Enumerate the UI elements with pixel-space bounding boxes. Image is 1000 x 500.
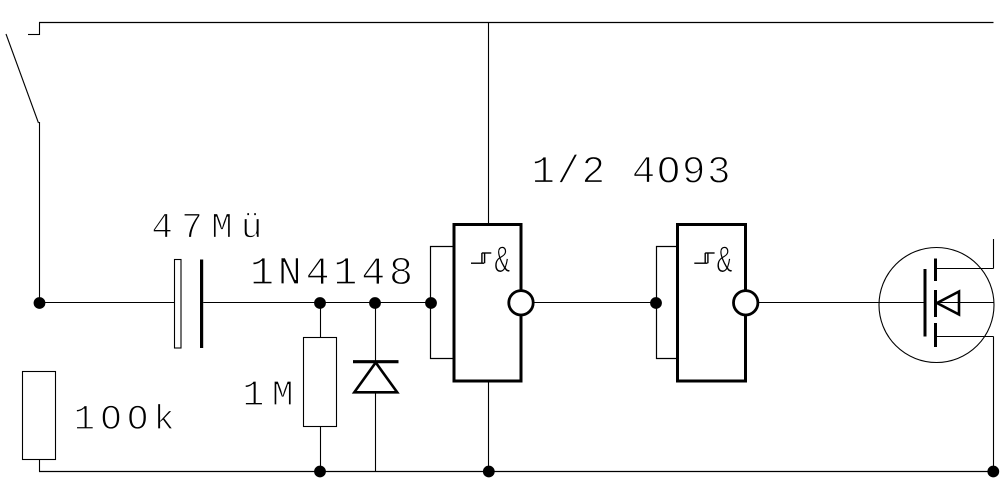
node D junction (U1A input) (425, 297, 437, 309)
value label 1N4148 (250, 252, 413, 297)
output bubble U1B (734, 291, 758, 315)
nand gate U1B body (678, 225, 746, 382)
node H junction (Q1 source) (987, 466, 999, 478)
switch S1 (6, 23, 40, 124)
value label 100k (74, 400, 175, 440)
transistor Q1 MOSFET (879, 248, 994, 363)
wire node A to capacitor (40, 302, 175, 304)
gate function label & U1A (494, 240, 510, 284)
wire top rail to U1A (488, 23, 490, 227)
node E junction (U1B input) (650, 297, 662, 309)
svg-text:47Mü: 47Mü (151, 207, 262, 248)
input bracket U1B (657, 247, 678, 359)
output bubble U1A (509, 291, 533, 315)
wire bottom ground rail (39, 471, 994, 473)
diode D1 1N4148 (353, 303, 399, 472)
resistor R2 1M (304, 303, 337, 472)
wire U1B output to Q1 gate (758, 302, 925, 304)
resistor R1 100k (23, 372, 56, 472)
node A junction (34, 297, 46, 309)
svg-text:&: & (717, 240, 733, 284)
svg-text:&: & (494, 240, 510, 284)
svg-text:1OOk: 1OOk (74, 400, 175, 440)
value label 47Mü (151, 207, 262, 248)
wire U1A to bottom rail (488, 379, 490, 472)
input bracket U1A (431, 247, 455, 359)
nand gate U1A body (454, 225, 521, 382)
wire top supply rail (39, 22, 994, 24)
node G junction (U1A bottom) (483, 466, 495, 478)
node C junction (diode top) (369, 297, 381, 309)
ic label 1/2 4093 (532, 151, 731, 195)
gate function label & U1B (717, 240, 733, 284)
svg-text:1/2 4O93: 1/2 4O93 (532, 151, 731, 195)
svg-text:1M: 1M (243, 375, 294, 416)
value label 1M (243, 375, 294, 416)
capacitor C1 47Mü (175, 260, 202, 349)
wire U1A output to U1B input (533, 302, 656, 304)
wire Q1 source to bottom rail (993, 337, 995, 472)
node B junction (1M top) (314, 297, 326, 309)
schmitt trigger symbol U1B (694, 253, 714, 263)
wire Q1 drain stub (993, 239, 995, 269)
svg-text:1N4148: 1N4148 (250, 252, 413, 297)
schmitt trigger symbol U1A (471, 253, 491, 263)
node F junction (1M bottom) (314, 466, 326, 478)
wire capacitor to gate U1A input (203, 302, 430, 304)
wire switch to node A (39, 122, 41, 303)
